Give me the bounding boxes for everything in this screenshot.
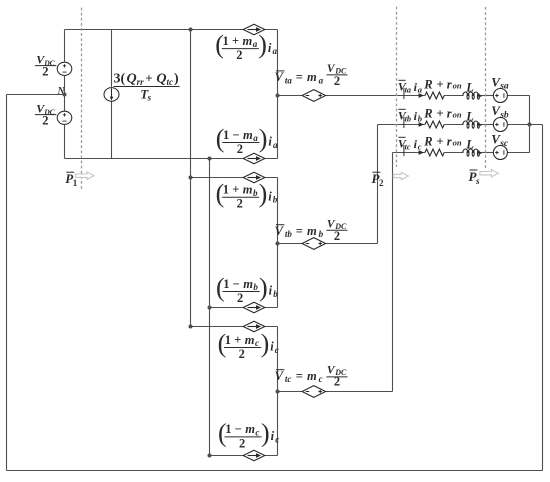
svg-text:): ): [261, 419, 270, 448]
wire: phase c riser: [392, 153, 394, 392]
svg-text:m: m: [243, 277, 253, 291]
label Vsa: [491, 74, 509, 91]
node: bus junction phase b: [528, 123, 532, 127]
svg-text:2: 2: [334, 375, 340, 389]
svg-text:1: 1: [223, 183, 229, 197]
dashed boundary P1: [81, 8, 83, 191]
power flow arrow Ps: [480, 170, 499, 177]
svg-text:−: −: [233, 277, 240, 291]
resistor R+ron phase c: [425, 149, 444, 156]
svg-text:b: b: [273, 289, 278, 299]
svg-text:N: N: [57, 87, 66, 97]
inductor L phase b: [463, 121, 481, 128]
svg-text:m: m: [243, 128, 253, 142]
node: leg B midpoint: [276, 242, 280, 246]
svg-text:L: L: [465, 138, 474, 152]
wire: leg C top: [191, 326, 278, 328]
svg-text:R: R: [423, 134, 432, 148]
svg-text:R: R: [423, 77, 432, 91]
resistor R+ron phase b: [425, 121, 444, 128]
node: positive rail at top rail: [189, 28, 193, 32]
ac source Vsb: [493, 118, 507, 132]
wire: positive rail drop: [190, 30, 192, 327]
svg-text:1: 1: [223, 277, 229, 291]
wire: right edge: [542, 125, 544, 471]
svg-text:+: +: [232, 183, 239, 197]
svg-text:m: m: [307, 369, 317, 383]
svg-text:r: r: [447, 106, 452, 120]
svg-text:2: 2: [379, 178, 384, 188]
wire: phase a from leg A mid to resistor: [278, 95, 426, 97]
label Vsc: [491, 132, 509, 149]
wire: leg C bottom: [210, 455, 278, 457]
svg-text:i: i: [270, 340, 274, 354]
svg-text:c: c: [418, 142, 422, 152]
label (1+mb)/2 ib: [216, 179, 278, 211]
svg-text:): ): [259, 124, 268, 153]
wire: negative rail drop: [209, 159, 211, 456]
resistor R+ron phase a: [425, 92, 444, 99]
labels phase b branch: [398, 106, 474, 128]
svg-text:+: +: [437, 134, 444, 148]
label Ps: [469, 169, 481, 186]
svg-text:r: r: [447, 134, 452, 148]
svg-text:−: −: [235, 422, 242, 436]
wire: phase c source to bus: [507, 152, 529, 154]
svg-text:ta: ta: [405, 86, 411, 95]
svg-text:c: c: [275, 434, 279, 444]
wire: phase c to resistor: [393, 152, 426, 154]
label (1-ma)/2 ia: [216, 124, 278, 156]
svg-text:Q: Q: [156, 72, 166, 87]
svg-text:L: L: [465, 81, 474, 95]
svg-text:a: a: [273, 46, 278, 56]
svg-text:L: L: [465, 110, 474, 124]
inductor L phase c: [463, 149, 481, 156]
current source 3(Qrr+Qtc)/Ts: [104, 88, 119, 102]
wire: DC top rail: [65, 29, 278, 31]
label Vta = ma VDC/2: [275, 63, 348, 88]
svg-text:ta: ta: [285, 75, 293, 85]
node: leg C bottom corner: [208, 454, 212, 458]
svg-text:+: +: [145, 71, 152, 86]
svg-text:b: b: [253, 282, 258, 292]
svg-text:): ): [258, 30, 267, 59]
dependent current source (1-mb)/2 ib: [243, 302, 265, 313]
svg-text:b: b: [253, 188, 258, 198]
wire: phase c inductor to source: [480, 152, 493, 154]
label 3(Qrr+Qtc)/Ts: [114, 71, 180, 103]
svg-text:m: m: [243, 183, 253, 197]
wire: DC rail upper segment: [64, 30, 66, 62]
svg-text:−: −: [232, 128, 239, 142]
wire: phase a source to bus: [507, 95, 529, 97]
label (1-mb)/2 ib: [216, 273, 278, 305]
dependent current source (1-mc)/2 ic: [243, 450, 265, 461]
svg-text:b: b: [273, 195, 278, 205]
ac source Vsa: [493, 89, 507, 103]
node: leg A midpoint: [276, 94, 280, 98]
svg-text:c: c: [255, 338, 259, 348]
svg-text:m: m: [243, 34, 253, 48]
wire: phase b to resistor: [378, 124, 426, 126]
node: negative rail at bottom rail: [208, 157, 212, 161]
wire: DC bottom rail: [65, 158, 278, 160]
dashed boundary P2: [396, 7, 398, 167]
label P2: [372, 171, 385, 188]
svg-text:i: i: [269, 284, 273, 298]
svg-text:1: 1: [223, 128, 229, 142]
svg-text:m: m: [245, 422, 255, 436]
svg-text:1: 1: [225, 422, 231, 436]
svg-text:): ): [261, 329, 270, 358]
svg-text:i: i: [271, 429, 275, 443]
wire: phase b source to bus: [507, 124, 542, 126]
svg-text:): ): [259, 179, 268, 208]
node N junction: [63, 93, 67, 97]
wire: leg A right side: [277, 30, 279, 159]
svg-text:a: a: [319, 75, 324, 85]
dependent current source (1+mc)/2 ic: [243, 321, 265, 332]
dependent current source (1-ma)/2 ia: [243, 153, 265, 164]
labels phase c branch: [398, 134, 474, 156]
node: leg C top corner: [189, 325, 193, 329]
svg-text:V: V: [275, 224, 285, 238]
dashed boundary Ps: [485, 7, 487, 168]
svg-text:tb: tb: [405, 115, 411, 124]
svg-text:+: +: [232, 34, 239, 48]
wire: leg B bottom: [210, 307, 278, 309]
wire: DC rail between sources: [64, 76, 66, 111]
svg-text:+: +: [234, 333, 241, 347]
svg-text:2: 2: [236, 48, 242, 62]
svg-text:1: 1: [225, 333, 231, 347]
label VDC/2 upper: [35, 53, 57, 79]
dependent current source (1+mb)/2 ib: [243, 172, 265, 183]
svg-text:): ): [174, 72, 179, 87]
svg-text:1: 1: [73, 178, 78, 188]
inductor L phase a: [463, 92, 481, 99]
dependent current source (1+ma)/2 ia: [243, 24, 265, 35]
svg-text:s: s: [475, 176, 480, 186]
svg-text:tc: tc: [167, 77, 174, 87]
svg-text:2: 2: [237, 197, 243, 211]
svg-text:): ): [259, 273, 268, 302]
svg-text:V: V: [275, 369, 285, 383]
label VDC/2 lower: [35, 102, 57, 128]
node: leg B bottom junction: [208, 306, 212, 310]
voltage source VDC/2 lower: [57, 111, 72, 124]
dependent voltage source Vta: [302, 90, 326, 102]
svg-text:sc: sc: [499, 139, 509, 149]
svg-text:b: b: [319, 229, 324, 239]
label Vtb = mb VDC/2: [275, 219, 348, 244]
svg-text:on: on: [453, 138, 462, 148]
node: leg B top junction: [189, 176, 193, 180]
labels phase a branch: [398, 77, 474, 99]
node: leg C midpoint: [276, 390, 280, 394]
svg-text:2: 2: [237, 291, 243, 305]
label (1+mc)/2 ic: [218, 329, 279, 361]
wire: leg B top: [191, 177, 278, 179]
svg-text:2: 2: [42, 65, 48, 79]
svg-text:+: +: [437, 106, 444, 120]
svg-text:tc: tc: [405, 143, 411, 152]
label (1-mc)/2 ic: [218, 419, 279, 451]
power flow arrow P2: [393, 172, 408, 179]
wire: current-source branch lower: [111, 101, 113, 159]
svg-text:Q: Q: [127, 72, 137, 87]
svg-text:1: 1: [223, 34, 229, 48]
svg-text:tb: tb: [285, 229, 293, 239]
svg-text:2: 2: [239, 436, 245, 450]
svg-text:R: R: [423, 106, 432, 120]
wire: DC rail lower segment: [64, 125, 66, 159]
svg-text:=: =: [296, 224, 303, 238]
svg-text:m: m: [245, 333, 255, 347]
ac source Vsc: [493, 146, 507, 160]
svg-text:a: a: [253, 133, 258, 143]
label Vtc = mc VDC/2: [275, 365, 348, 389]
svg-text:on: on: [453, 81, 462, 91]
svg-text:a: a: [253, 39, 258, 49]
label node N: [57, 87, 66, 97]
label P1: [65, 171, 78, 188]
wire: phase b inductor to source: [480, 124, 493, 126]
svg-text:sb: sb: [499, 110, 509, 120]
svg-text:+: +: [437, 77, 444, 91]
svg-text:=: =: [296, 70, 303, 84]
svg-text:=: =: [296, 369, 303, 383]
wire: leg C right side: [277, 327, 279, 456]
wire: phase c resistor to inductor: [444, 152, 463, 154]
svg-text:c: c: [319, 374, 323, 384]
dependent voltage source Vtb: [302, 238, 326, 250]
svg-text:r: r: [447, 77, 452, 91]
wire: left edge: [6, 95, 8, 471]
wire: Vtc source wire: [278, 391, 393, 393]
voltage source VDC/2 upper: [57, 62, 72, 75]
wire: phase a inductor to source: [480, 95, 493, 97]
svg-text:a: a: [273, 140, 278, 150]
svg-text:b: b: [418, 114, 422, 124]
svg-text:2: 2: [334, 229, 340, 243]
wire: phase a resistor to inductor: [444, 95, 463, 97]
svg-text:i: i: [268, 41, 272, 55]
svg-text:on: on: [453, 110, 462, 120]
wire: phase b riser: [377, 125, 379, 244]
svg-text:m: m: [307, 224, 317, 238]
label (1+ma)/2 ia: [215, 30, 277, 62]
svg-text:c: c: [275, 345, 279, 355]
svg-text:i: i: [268, 190, 272, 204]
svg-text:2: 2: [42, 114, 48, 128]
wire: Vtb source wire: [278, 243, 378, 245]
svg-text:i: i: [268, 135, 272, 149]
svg-text:c: c: [255, 427, 259, 437]
svg-text:m: m: [307, 70, 317, 84]
svg-text:a: a: [418, 85, 423, 95]
wire: source bus vertical: [529, 96, 531, 153]
wire: phase b resistor to inductor: [444, 124, 463, 126]
wire: bottom edge: [7, 470, 543, 472]
wire: current-source branch upper: [111, 30, 113, 87]
svg-text:V: V: [275, 70, 285, 84]
power flow arrow P1: [76, 172, 95, 179]
svg-text:sa: sa: [499, 82, 509, 92]
dependent voltage source Vtc: [302, 386, 326, 398]
svg-text:s: s: [147, 92, 152, 102]
wire: N stub to left edge: [7, 94, 65, 96]
svg-text:2: 2: [237, 142, 243, 156]
svg-text:2: 2: [334, 74, 340, 88]
svg-text:2: 2: [239, 347, 245, 361]
wire: leg B right side: [277, 178, 279, 308]
label Vsb: [491, 103, 509, 120]
svg-text:3(: 3(: [114, 72, 126, 87]
svg-text:tc: tc: [285, 374, 292, 384]
